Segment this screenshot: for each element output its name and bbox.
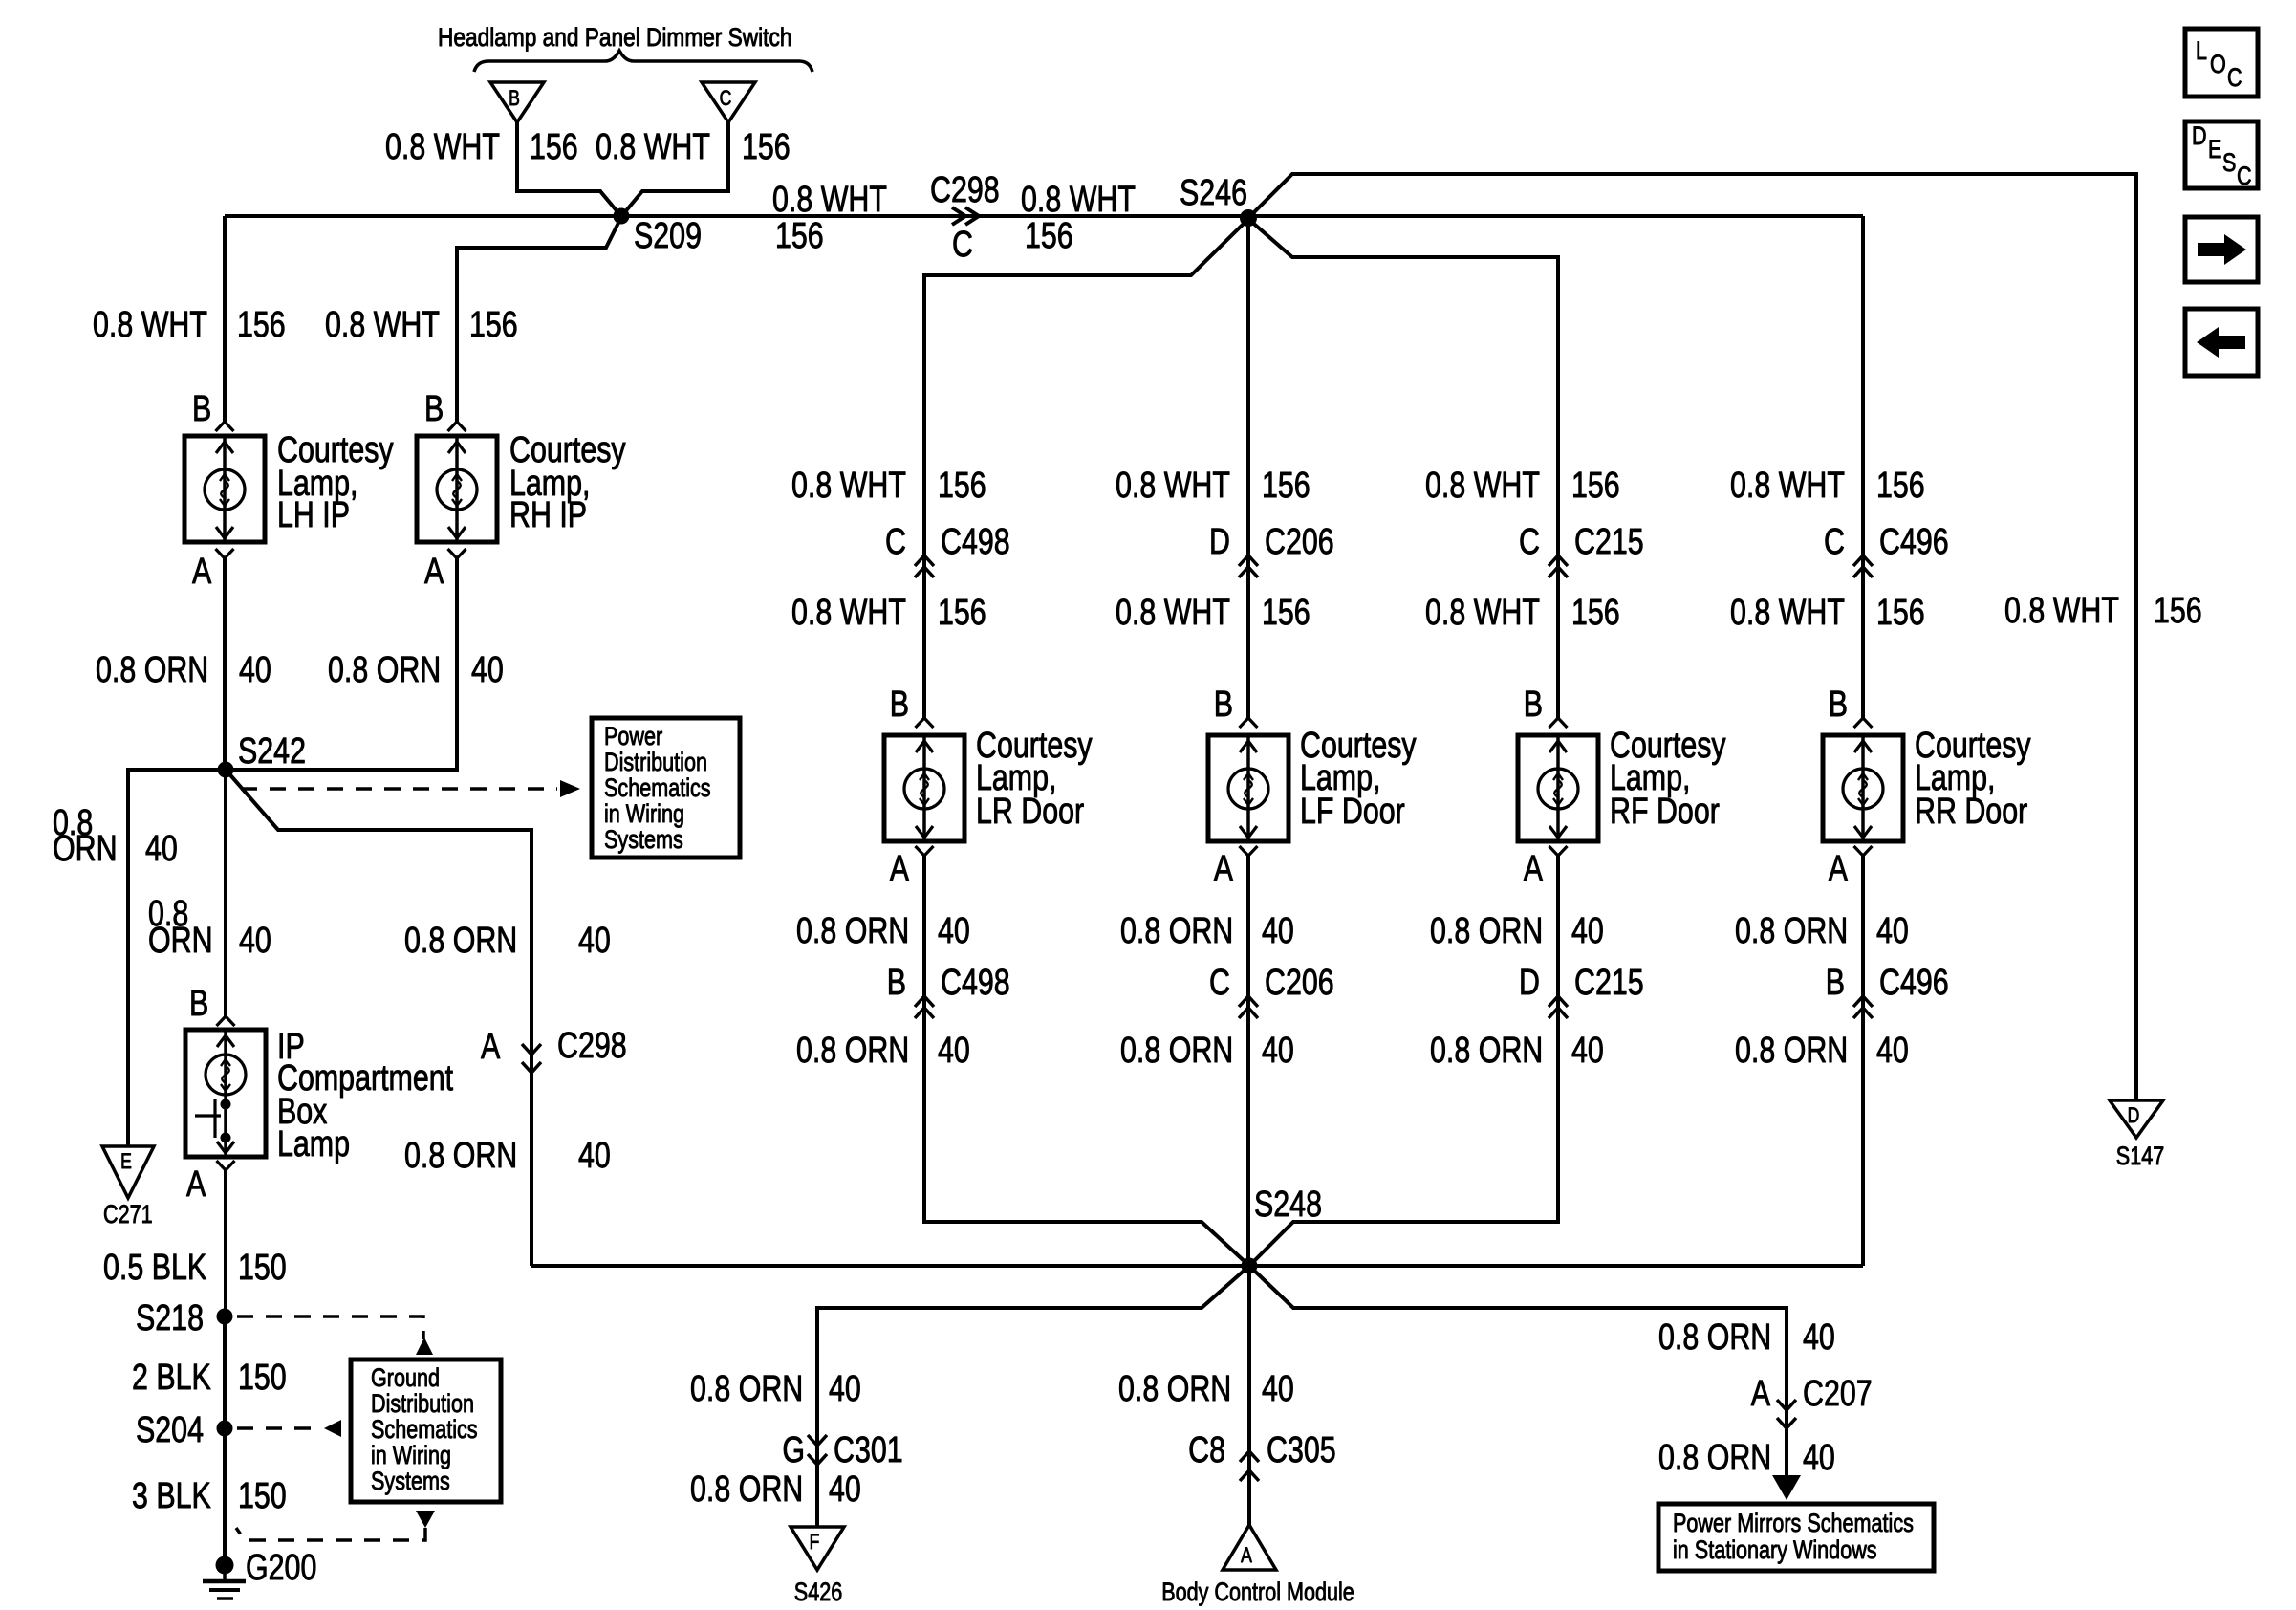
label Courtesy Lamp, LF Door — [1300, 726, 1417, 832]
svg-text:A: A — [890, 849, 909, 889]
splice S204 — [217, 1421, 233, 1437]
connector triangle F to S426 — [791, 1527, 844, 1570]
svg-text:0.8 WHT: 0.8 WHT — [1425, 466, 1540, 506]
svg-text:S426: S426 — [794, 1578, 842, 1607]
wire S248 branch to C301 / S426 — [817, 1266, 1249, 1527]
courtesy lamp RF door — [1518, 735, 1598, 841]
connector pin B of LH IP lamp — [216, 422, 234, 431]
svg-text:A: A — [1214, 849, 1233, 889]
splice S242 — [218, 762, 234, 778]
connector triangle A to Body Control Module — [1223, 1525, 1276, 1570]
wire 0.8 WHT 156 from pin B to S209 — [517, 122, 619, 214]
svg-text:ORN: ORN — [53, 829, 118, 869]
svg-text:C: C — [720, 87, 732, 110]
svg-text:C498: C498 — [941, 963, 1010, 1003]
svg-text:S204: S204 — [136, 1410, 204, 1450]
svg-text:0.8 ORN: 0.8 ORN — [1120, 911, 1233, 951]
svg-text:C: C — [2227, 64, 2242, 93]
connector C215 (RF door feed) — [1549, 555, 1568, 577]
svg-text:40: 40 — [1803, 1438, 1835, 1478]
svg-text:Systems: Systems — [371, 1468, 450, 1496]
svg-text:S147: S147 — [2116, 1142, 2164, 1171]
dashed reference line S204 to Ground Distribution box — [237, 1426, 311, 1430]
svg-text:40: 40 — [145, 829, 178, 869]
svg-text:40: 40 — [829, 1369, 861, 1409]
svg-text:40: 40 — [1571, 1031, 1604, 1071]
svg-text:0.8 WHT: 0.8 WHT — [93, 305, 207, 345]
svg-text:A: A — [424, 552, 444, 592]
dashed reference line S218 to Ground Distribution box — [237, 1316, 423, 1339]
svg-text:156: 156 — [1025, 216, 1073, 256]
svg-text:LR Door: LR Door — [976, 792, 1084, 832]
svg-text:40: 40 — [1262, 1369, 1294, 1409]
connector pin B of IP compartment box lamp — [217, 1016, 235, 1026]
nav button forward arrow — [2185, 217, 2258, 282]
label Courtesy Lamp, LH IP — [277, 430, 394, 535]
svg-text:40: 40 — [578, 1136, 611, 1176]
svg-text:B: B — [1214, 685, 1233, 725]
svg-text:0.8 ORN: 0.8 ORN — [328, 650, 441, 690]
svg-text:0.8 ORN: 0.8 ORN — [1118, 1369, 1231, 1409]
svg-text:40: 40 — [1571, 911, 1604, 951]
ground G200 — [203, 1556, 246, 1599]
svg-text:0.8 ORN: 0.8 ORN — [1120, 1031, 1233, 1071]
svg-text:B: B — [192, 389, 211, 429]
svg-text:A: A — [1829, 849, 1848, 889]
svg-text:Headlamp and Panel Dimmer Swit: Headlamp and Panel Dimmer Switch — [438, 23, 791, 52]
svg-text:O: O — [2210, 51, 2226, 79]
svg-text:A: A — [1241, 1544, 1252, 1567]
connector triangle C (headlamp switch pin C) — [702, 82, 755, 122]
svg-text:0.8 WHT: 0.8 WHT — [325, 305, 440, 345]
connector pin B of courtesy lamp LR door — [916, 718, 934, 728]
svg-text:2 BLK: 2 BLK — [132, 1358, 211, 1398]
svg-text:0.8 ORN: 0.8 ORN — [690, 1469, 803, 1510]
svg-text:Schematics: Schematics — [604, 774, 711, 803]
reference box Power Distribution Schematics in Wiring Systems — [592, 718, 740, 858]
wire S248 down to body control module — [1247, 1266, 1251, 1525]
connector C215 (RF door return) — [1549, 996, 1568, 1018]
wire 0.8 WHT 156 RF feed through connector — [1556, 422, 1560, 718]
connector pin B of RH IP lamp — [448, 422, 466, 431]
arrowhead into Power Mirrors reference box — [1772, 1475, 1801, 1500]
svg-text:0.8 WHT: 0.8 WHT — [791, 466, 906, 506]
connector C298 pin A (inline chevrons) — [522, 1044, 541, 1073]
svg-text:C: C — [1209, 963, 1230, 1003]
wire 0.8 ORN 40 LR door return to S248 — [924, 856, 1249, 1266]
svg-text:0.8 WHT: 0.8 WHT — [1116, 593, 1230, 633]
svg-text:0.8 WHT: 0.8 WHT — [1116, 466, 1230, 506]
svg-text:Lamp: Lamp — [277, 1124, 350, 1164]
label Courtesy Lamp, LR Door — [976, 726, 1093, 832]
brace for Headlamp and Panel Dimmer Switch — [474, 51, 812, 72]
svg-text:A: A — [1751, 1374, 1770, 1414]
svg-text:40: 40 — [239, 921, 271, 961]
svg-text:D: D — [2128, 1104, 2140, 1127]
svg-text:C498: C498 — [941, 522, 1010, 562]
svg-text:C: C — [2237, 163, 2252, 191]
courtesy lamp LF door — [1208, 735, 1289, 841]
svg-text:C206: C206 — [1265, 522, 1334, 562]
label Courtesy Lamp, RR Door — [1915, 726, 2031, 832]
svg-text:40: 40 — [578, 921, 611, 961]
svg-text:40: 40 — [938, 1031, 970, 1071]
svg-text:Distribution: Distribution — [371, 1390, 474, 1419]
wire 0.8 ORN 40 S242 to IP compartment box lamp — [224, 770, 227, 1016]
svg-text:B: B — [887, 963, 906, 1003]
svg-text:0.8 WHT: 0.8 WHT — [1021, 180, 1136, 220]
svg-text:D: D — [2192, 122, 2207, 151]
arrowhead from Ground Distribution box up toward S218 — [416, 1338, 433, 1355]
connector pin A of courtesy lamp RR door — [1854, 846, 1873, 856]
connector triangle E to C271 — [102, 1146, 154, 1198]
svg-text:40: 40 — [471, 650, 504, 690]
wire 3 BLK 150 S204 to G200 — [223, 1428, 227, 1565]
svg-text:B: B — [424, 389, 444, 429]
splice S246 — [1240, 209, 1257, 227]
svg-text:F: F — [810, 1531, 820, 1554]
wire 0.8 WHT 156 RR feed through connector — [1861, 422, 1865, 718]
svg-text:0.8 ORN: 0.8 ORN — [404, 1136, 517, 1176]
svg-text:LF Door: LF Door — [1300, 792, 1405, 832]
svg-text:156: 156 — [1262, 593, 1310, 633]
connector C301 (inline chevrons) — [808, 1435, 827, 1465]
connector pin B of courtesy lamp RR door — [1854, 718, 1873, 728]
connector C305 (inline chevrons) — [1240, 1451, 1259, 1481]
svg-text:A: A — [481, 1027, 500, 1067]
wire 0.8 ORN 40 RH IP to S242 — [226, 558, 457, 770]
wire 0.8 WHT 156 LF feed through connector — [1246, 422, 1250, 718]
svg-text:in Stationary Windows: in Stationary Windows — [1673, 1536, 1877, 1565]
connector pin B of courtesy lamp LF door — [1240, 718, 1258, 728]
courtesy lamp RH IP — [417, 436, 497, 542]
svg-text:C: C — [952, 225, 973, 265]
svg-text:156: 156 — [938, 593, 986, 633]
svg-text:156: 156 — [469, 305, 518, 345]
svg-text:RF Door: RF Door — [1610, 792, 1720, 832]
svg-text:ORN: ORN — [148, 921, 213, 961]
svg-text:Body Control Module: Body Control Module — [1161, 1578, 1354, 1607]
svg-text:C271: C271 — [103, 1201, 153, 1229]
svg-text:40: 40 — [1803, 1317, 1835, 1358]
svg-text:0.8 ORN: 0.8 ORN — [1658, 1317, 1771, 1358]
svg-text:0.8 ORN: 0.8 ORN — [796, 1031, 909, 1071]
svg-text:C301: C301 — [834, 1430, 903, 1470]
wire S246 down-right branch to RF door feed — [1248, 219, 1558, 422]
svg-text:G200: G200 — [246, 1548, 316, 1588]
svg-text:0.8 WHT: 0.8 WHT — [772, 180, 887, 220]
wire S246 down-left branch to LR door feed — [924, 219, 1248, 422]
svg-text:0.8 WHT: 0.8 WHT — [1730, 593, 1845, 633]
svg-text:C: C — [1824, 522, 1845, 562]
svg-text:150: 150 — [238, 1476, 287, 1516]
svg-text:40: 40 — [1876, 911, 1909, 951]
label 0.8 ORN (C271 branch, two lines) — [53, 803, 118, 869]
arrowhead to Power Distribution box — [560, 780, 580, 797]
wire 0.8 WHT 156 to courtesy lamp LH IP — [223, 216, 227, 422]
svg-text:Distribution: Distribution — [604, 749, 707, 777]
svg-text:S242: S242 — [238, 731, 306, 772]
reference box Power Mirrors Schematics in Stationary Windows — [1658, 1504, 1934, 1571]
svg-text:B: B — [890, 685, 909, 725]
wire S246 up-right branch to RR feed / S147 run — [1248, 174, 2136, 1100]
wire 0.8 ORN 40 LF door return to S248 — [1246, 856, 1250, 1266]
svg-text:C215: C215 — [1574, 522, 1644, 562]
svg-text:RR Door: RR Door — [1915, 792, 2027, 832]
courtesy lamp LR door — [884, 735, 964, 841]
connector C207 (inline chevrons) — [1777, 1400, 1796, 1428]
svg-text:C: C — [885, 522, 906, 562]
connector C496 (RR door return) — [1853, 996, 1873, 1018]
wire 2 BLK 150 S218 to S204 — [223, 1316, 227, 1428]
wire S248 branch to C207 / power mirrors — [1249, 1266, 1787, 1475]
svg-text:150: 150 — [238, 1248, 287, 1288]
svg-text:0.8 ORN: 0.8 ORN — [1658, 1438, 1771, 1478]
svg-text:S218: S218 — [136, 1298, 204, 1338]
dashed reference line Ground Distribution box to G200 — [236, 1528, 425, 1540]
courtesy lamp RR door — [1823, 735, 1903, 841]
svg-text:C206: C206 — [1265, 963, 1334, 1003]
svg-text:A: A — [192, 552, 211, 592]
svg-text:0.8 WHT: 0.8 WHT — [1730, 466, 1845, 506]
wire 0.8 ORN 40 main lower bus through S248 — [531, 1264, 1863, 1268]
courtesy lamp LH IP — [184, 436, 265, 542]
svg-text:C496: C496 — [1879, 522, 1949, 562]
svg-text:0.8 ORN: 0.8 ORN — [96, 650, 208, 690]
svg-text:C298: C298 — [930, 170, 1000, 210]
wire 0.8 WHT 156 from pin C to S209 — [623, 122, 728, 214]
nav button back arrow — [2185, 309, 2258, 376]
svg-text:C8: C8 — [1188, 1430, 1225, 1470]
wire 0.8 WHT 156 main run S209 to S246 — [225, 214, 1863, 218]
svg-text:40: 40 — [829, 1469, 861, 1510]
svg-text:156: 156 — [742, 127, 791, 167]
svg-text:in Wiring: in Wiring — [371, 1442, 451, 1470]
label Courtesy Lamp, RH IP — [509, 430, 626, 535]
svg-text:in Wiring: in Wiring — [604, 800, 684, 829]
svg-text:156: 156 — [1262, 466, 1310, 506]
svg-text:C496: C496 — [1879, 963, 1949, 1003]
nav button LOC — [2185, 29, 2258, 97]
wire 0.8 WHT 156 S209 branch to RH IP — [457, 219, 620, 422]
connector triangle B (headlamp switch pin B) — [490, 82, 544, 122]
connector pin A of IP compartment box lamp — [217, 1161, 235, 1170]
connector C498 (LR door return) — [915, 996, 934, 1018]
wire 0.8 WHT 156 LR feed through connector — [922, 422, 926, 718]
connector C496 (RR door feed) — [1853, 555, 1873, 577]
svg-text:0.8 WHT: 0.8 WHT — [1425, 593, 1540, 633]
connector pin B of courtesy lamp RF door — [1549, 718, 1568, 728]
connector C206 (LF door feed) — [1239, 555, 1258, 577]
svg-text:156: 156 — [1876, 593, 1925, 633]
svg-text:B: B — [509, 87, 520, 110]
wire 0.8 ORN 40 LH IP to S242 — [223, 558, 227, 770]
svg-text:156: 156 — [775, 216, 824, 256]
svg-text:156: 156 — [1571, 466, 1620, 506]
dashed reference line S242 to Power Distribution box — [241, 787, 557, 791]
wire S246 down to LF door feed — [1246, 218, 1250, 422]
connector triangle D to S147 — [2110, 1100, 2163, 1138]
connector C498 (LR door feed) — [915, 555, 934, 577]
connector pin A of courtesy lamp LR door — [916, 846, 934, 856]
connector pin A of courtesy lamp LF door — [1240, 846, 1258, 856]
svg-text:156: 156 — [2154, 591, 2202, 631]
svg-text:0.8 WHT: 0.8 WHT — [2004, 591, 2119, 631]
svg-text:150: 150 — [238, 1358, 287, 1398]
svg-text:S248: S248 — [1254, 1185, 1322, 1225]
svg-text:0.8 ORN: 0.8 ORN — [1430, 911, 1543, 951]
svg-text:B: B — [1524, 685, 1543, 725]
svg-text:E: E — [120, 1150, 132, 1173]
svg-text:D: D — [1519, 963, 1540, 1003]
wire 0.8 ORN 40 S242 to C298 pin A branch — [226, 770, 531, 1266]
svg-text:3 BLK: 3 BLK — [132, 1476, 211, 1516]
svg-text:C: C — [1519, 522, 1540, 562]
wire 0.8 ORN 40 S242 to C271 branch — [128, 770, 226, 1146]
svg-text:LH IP: LH IP — [277, 495, 350, 535]
splice S248 — [1242, 1258, 1258, 1274]
svg-text:B: B — [1829, 685, 1848, 725]
arrowhead below Ground Distribution box pointing down — [416, 1511, 435, 1528]
svg-text:0.8 ORN: 0.8 ORN — [1430, 1031, 1543, 1071]
wire 0.8 ORN 40 RF door return to S248 — [1249, 856, 1558, 1266]
IP compartment box lamp — [185, 1030, 266, 1157]
nav button DESC — [2185, 121, 2258, 191]
svg-text:RH IP: RH IP — [509, 495, 587, 535]
svg-text:C298: C298 — [557, 1026, 627, 1066]
svg-text:B: B — [189, 984, 208, 1024]
svg-text:0.8 WHT: 0.8 WHT — [385, 127, 500, 167]
svg-text:40: 40 — [1262, 1031, 1294, 1071]
svg-text:S246: S246 — [1180, 173, 1247, 213]
svg-text:Power Mirrors Schematics: Power Mirrors Schematics — [1673, 1510, 1914, 1538]
svg-text:0.8 ORN: 0.8 ORN — [690, 1369, 803, 1409]
svg-text:G: G — [782, 1430, 805, 1470]
svg-text:L: L — [2196, 37, 2207, 66]
connector C206 (LF door return) — [1239, 996, 1258, 1018]
svg-text:0.5 BLK: 0.5 BLK — [103, 1248, 206, 1288]
arrowhead pointing left at S204 reference — [324, 1420, 341, 1437]
svg-text:E: E — [2208, 136, 2221, 164]
svg-text:C215: C215 — [1574, 963, 1644, 1003]
svg-text:156: 156 — [1571, 593, 1620, 633]
svg-text:156: 156 — [938, 466, 986, 506]
wire RR door feed from main run — [1861, 216, 1865, 422]
svg-text:Power: Power — [604, 723, 662, 751]
svg-text:Ground: Ground — [371, 1364, 440, 1393]
svg-text:Schematics: Schematics — [371, 1416, 478, 1445]
splice S218 — [217, 1309, 233, 1325]
svg-text:C305: C305 — [1267, 1430, 1336, 1470]
svg-text:S209: S209 — [634, 216, 702, 256]
svg-text:156: 156 — [1876, 466, 1925, 506]
svg-text:0.8 WHT: 0.8 WHT — [791, 593, 906, 633]
svg-text:40: 40 — [1262, 911, 1294, 951]
svg-text:A: A — [186, 1164, 206, 1205]
svg-text:40: 40 — [239, 650, 271, 690]
svg-text:156: 156 — [237, 305, 286, 345]
svg-text:C207: C207 — [1803, 1374, 1873, 1414]
svg-text:D: D — [1209, 522, 1230, 562]
reference box Ground Distribution Schematics in Wiring Systems — [351, 1360, 501, 1502]
svg-text:0.8 ORN: 0.8 ORN — [1735, 911, 1848, 951]
svg-text:40: 40 — [938, 911, 970, 951]
label 0.8 ORN (S242 to IP box lamp, two lines) — [148, 894, 213, 961]
connector C298 pin C (inline chevrons on main run) — [952, 207, 979, 225]
wire 0.5 BLK 150 lamp to S218 — [224, 1170, 227, 1316]
svg-text:A: A — [1524, 849, 1543, 889]
svg-text:0.8 ORN: 0.8 ORN — [796, 911, 909, 951]
svg-text:S: S — [2222, 149, 2236, 178]
svg-text:Systems: Systems — [604, 826, 683, 855]
connector pin A of RH IP lamp — [448, 549, 466, 558]
label IP Compartment Box Lamp — [277, 1027, 454, 1164]
connector pin A of courtesy lamp RF door — [1549, 846, 1568, 856]
wire 0.8 ORN 40 RR door return to S248 — [1861, 856, 1865, 1266]
splice S209 — [614, 208, 630, 225]
svg-text:0.8 ORN: 0.8 ORN — [1735, 1031, 1848, 1071]
svg-text:0.8 ORN: 0.8 ORN — [404, 921, 517, 961]
svg-text:0.8 WHT: 0.8 WHT — [596, 127, 710, 167]
connector pin A of LH IP lamp — [216, 549, 234, 558]
label Courtesy Lamp, RF Door — [1610, 726, 1726, 832]
svg-text:40: 40 — [1876, 1031, 1909, 1071]
svg-text:B: B — [1826, 963, 1845, 1003]
svg-text:156: 156 — [530, 127, 578, 167]
